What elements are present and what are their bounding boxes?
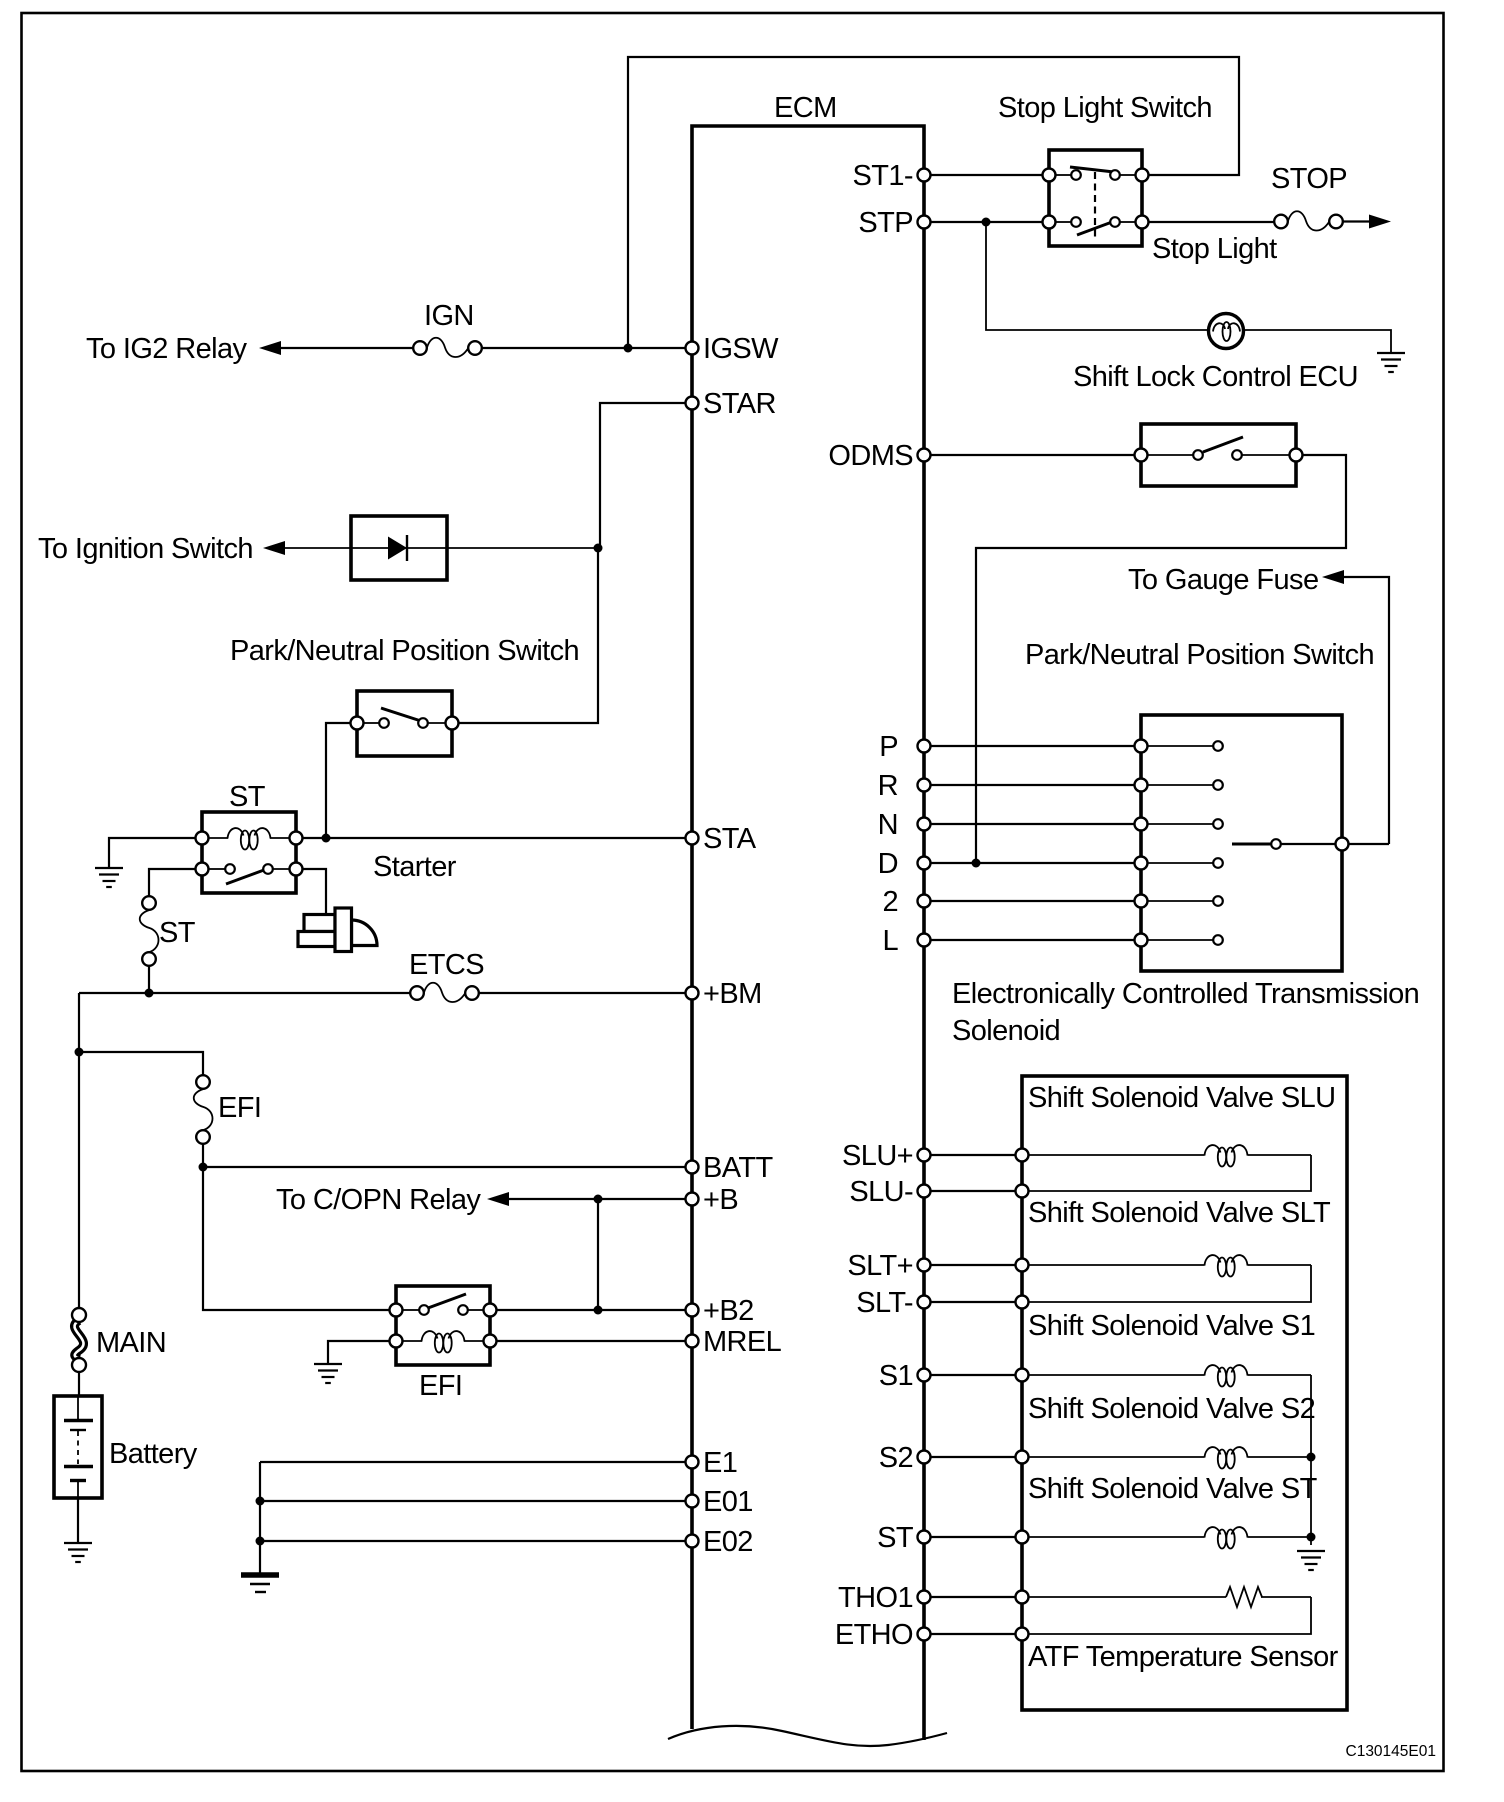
relay ST box [196, 812, 303, 893]
svg-text:E01: E01 [703, 1486, 753, 1518]
pin P [879, 731, 930, 763]
svg-text:SLU-: SLU- [849, 1176, 913, 1208]
fuse EFI [194, 1075, 213, 1144]
svg-text:SLT-: SLT- [856, 1287, 913, 1319]
wire +B pin [508, 1198, 692, 1200]
svg-text:To Gauge Fuse: To Gauge Fuse [1128, 564, 1319, 596]
battery B1 [54, 1396, 102, 1498]
svg-text:IGSW: IGSW [703, 333, 779, 365]
svg-text:Park/Neutral Position Switch: Park/Neutral Position Switch [230, 635, 579, 667]
wire SLU- pin [924, 1190, 1022, 1192]
PN contact N [1135, 818, 1148, 831]
ground ECM E02 [241, 1575, 279, 1592]
PN contact L lead [1141, 939, 1213, 941]
solenoid coil SLT [1022, 1255, 1311, 1276]
wire BATT pin [203, 1166, 692, 1168]
wire battery to ground [77, 1498, 79, 1542]
wire PN switch to STA node [326, 723, 357, 838]
pin SLU- [849, 1176, 930, 1208]
wire EFI relay coil to ground [328, 1341, 396, 1363]
svg-text:ETCS: ETCS [409, 949, 484, 981]
wire STP to STOP fuse [1142, 221, 1274, 223]
starter motor M [298, 908, 377, 952]
pin N [878, 809, 931, 841]
wire node down to Park/Neutral Position Switch [452, 548, 598, 723]
svg-text:SLT+: SLT+ [847, 1250, 913, 1282]
svg-text:+B: +B [703, 1184, 738, 1216]
svg-text:IGN: IGN [424, 300, 474, 332]
svg-text:N: N [878, 809, 898, 841]
solenoid coil S1 [1022, 1365, 1311, 1386]
svg-text:ST: ST [877, 1522, 914, 1554]
wire EFI relay coil to MREL pin [490, 1340, 692, 1342]
wire THO1 pin [924, 1596, 1022, 1598]
wire SLT return [1022, 1265, 1311, 1302]
pin E1 [686, 1447, 738, 1479]
ECM box [692, 126, 924, 1740]
pin STA [686, 823, 757, 855]
svg-text:S2: S2 [879, 1442, 913, 1474]
wire 2 pin to PN switch [924, 900, 1141, 902]
PN contact R [1135, 779, 1148, 792]
svg-text:S1: S1 [879, 1360, 913, 1392]
PN switch common wiper [1232, 838, 1389, 851]
pin STAR [686, 388, 776, 420]
junction STP node [982, 218, 991, 227]
svg-text:Stop Light Switch: Stop Light Switch [998, 92, 1212, 124]
wire ATF sensor return [1022, 1597, 1311, 1634]
svg-text:Solenoid: Solenoid [952, 1015, 1060, 1047]
solenoid coil S2 [1022, 1447, 1311, 1468]
wire EFI fuse to BATT line [202, 1144, 204, 1167]
wire S2 pin [924, 1456, 1022, 1458]
svg-text:Shift Lock Control ECU: Shift Lock Control ECU [1073, 361, 1358, 393]
PN contact D lead [1141, 862, 1213, 864]
wire Stop Light Switch to top rail [628, 57, 1239, 348]
pin E02 [686, 1526, 753, 1558]
pin SLU+ [842, 1140, 930, 1172]
contact S2 [1016, 1451, 1029, 1464]
svg-text:D: D [878, 848, 898, 880]
wire ODMS pin to switch [924, 454, 1141, 456]
contact SLT- [1016, 1296, 1029, 1309]
PN contact L [1135, 934, 1148, 947]
pin R [878, 770, 931, 802]
svg-text:ETHO: ETHO [835, 1619, 913, 1651]
ground battery [64, 1543, 92, 1562]
wire fuse to STOP arrow [1343, 220, 1370, 222]
PN contact 2 [1135, 895, 1148, 908]
wire ODMS switch down to D node [976, 455, 1346, 863]
pin ETHO [835, 1619, 931, 1651]
contact SLU+ [1016, 1149, 1029, 1162]
wire SLT- pin [924, 1301, 1022, 1303]
pin ODMS [828, 440, 930, 472]
pin ST [877, 1522, 930, 1554]
contact S1 [1016, 1369, 1029, 1382]
contact ST [1016, 1531, 1029, 1544]
pin STP [858, 207, 930, 239]
contact SLT+ [1016, 1259, 1029, 1272]
svg-text:R: R [878, 770, 898, 802]
svg-text:EFI: EFI [419, 1370, 462, 1402]
junction +B node [594, 1195, 603, 1204]
wire EFI relay to +B2 pin [490, 1309, 692, 1311]
svg-text:STAR: STAR [703, 388, 776, 420]
svg-text:STP: STP [858, 207, 913, 239]
wire R pin to PN switch [924, 784, 1141, 786]
wire ST1- pin to Stop Light Switch [924, 174, 1049, 176]
PN contact R lead [1141, 784, 1213, 786]
wire +BM rail [79, 992, 410, 994]
svg-text:2: 2 [882, 886, 898, 918]
arrow to IG2 Relay [259, 341, 281, 355]
solenoid coil ST [1022, 1527, 1311, 1548]
pin IGSW [686, 333, 780, 365]
svg-text:Starter: Starter [373, 851, 457, 883]
wire SLT+ pin [924, 1264, 1022, 1266]
pin THO1 [838, 1582, 930, 1614]
svg-text:MAIN: MAIN [96, 1327, 166, 1359]
PN contact P [1135, 740, 1148, 753]
fusible link MAIN [72, 1308, 86, 1372]
wire gauge fuse to PN switch common [1343, 577, 1389, 844]
resistor ATF temperature sensor [1022, 1587, 1311, 1607]
svg-text:E1: E1 [703, 1447, 737, 1479]
diode D1 box [351, 516, 447, 580]
svg-text:P: P [879, 731, 898, 763]
svg-text:To C/OPN Relay: To C/OPN Relay [276, 1184, 481, 1216]
PN contact 2 lead [1141, 900, 1213, 902]
svg-text:L: L [882, 925, 898, 957]
wire STP pin to Stop Light Switch [924, 221, 1049, 223]
junction E01 node [256, 1497, 265, 1506]
wire branch to EFI fuse [79, 1052, 203, 1075]
wire IGN fuse to IGSW pin [482, 347, 692, 349]
pin SLT- [856, 1287, 930, 1319]
svg-text:ST: ST [229, 781, 266, 813]
wire battery rail down [78, 993, 80, 1308]
PN contact N lead [1141, 823, 1213, 825]
svg-text:ATF Temperature Sensor: ATF Temperature Sensor [1028, 1641, 1339, 1673]
wire ST relay to STA pin [296, 837, 692, 839]
wire ST relay to starter [296, 869, 326, 914]
Stop Light Switch S1 [1043, 150, 1149, 246]
contact THO1 [1016, 1591, 1029, 1604]
wire diode line [284, 547, 598, 549]
svg-text:Shift Solenoid Valve ST: Shift Solenoid Valve ST [1028, 1473, 1318, 1505]
svg-text:STA: STA [703, 823, 757, 855]
svg-text:E02: E02 [703, 1526, 753, 1558]
wire E1 pin [260, 1461, 692, 1463]
wire MAIN to battery [78, 1372, 80, 1396]
arrow to Ignition Switch [263, 541, 285, 555]
wire S1 pin [924, 1374, 1022, 1376]
svg-text:ECM: ECM [774, 92, 837, 124]
svg-text:+B2: +B2 [703, 1295, 754, 1327]
svg-text:+BM: +BM [703, 978, 762, 1010]
ECT solenoid assembly box [1022, 1076, 1347, 1710]
svg-text:To IG2 Relay: To IG2 Relay [86, 333, 248, 365]
wire D pin to PN switch [924, 862, 1141, 864]
svg-text:C130145E01: C130145E01 [1346, 1743, 1437, 1760]
wire L pin to PN switch [924, 939, 1141, 941]
wire E01 pin [260, 1500, 692, 1502]
wire ST relay coil to ground [109, 838, 202, 867]
svg-text:ST: ST [159, 917, 196, 949]
pin SLT+ [847, 1250, 930, 1282]
PN contact P lead [1141, 745, 1213, 747]
PN contact D [1135, 857, 1148, 870]
svg-text:Shift Solenoid Valve SLT: Shift Solenoid Valve SLT [1028, 1197, 1331, 1229]
ground ST relay coil [95, 868, 123, 887]
junction ST ground rail [1307, 1533, 1316, 1542]
wire BATT node down to EFI relay [203, 1167, 396, 1310]
wire E ground bus [259, 1462, 261, 1573]
junction +BM node [145, 989, 154, 998]
junction E02 node [256, 1537, 265, 1546]
pin S2 [879, 1442, 931, 1474]
pin D [878, 848, 931, 880]
svg-text:EFI: EFI [218, 1092, 261, 1124]
contact SLU- [1016, 1185, 1029, 1198]
wire lamp to ground [1244, 330, 1392, 352]
junction STAR/diode node [594, 544, 603, 553]
wire ETHO pin [924, 1633, 1022, 1635]
fuse STOP [1274, 211, 1343, 230]
svg-text:Shift Solenoid Valve S2: Shift Solenoid Valve S2 [1028, 1393, 1315, 1425]
pin +B2 [686, 1295, 754, 1327]
relay EFI box [390, 1286, 497, 1365]
junction STA node [322, 834, 331, 843]
wire solenoid ground rail [1310, 1375, 1312, 1545]
svg-text:Park/Neutral Position Switch: Park/Neutral Position Switch [1025, 639, 1374, 671]
wire ST fuse to +BM line [148, 966, 150, 993]
pin MREL [686, 1326, 782, 1358]
junction S2 ground rail [1307, 1453, 1316, 1462]
Park/Neutral Position Switch (start) box [351, 691, 459, 756]
wire ST relay contact to ST fuse [149, 869, 202, 896]
svg-text:ODMS: ODMS [828, 440, 913, 472]
wire P pin to PN switch [924, 745, 1141, 747]
pin BATT [686, 1152, 774, 1184]
solenoid coil SLU [1022, 1145, 1311, 1166]
ground shift lock [1377, 353, 1405, 372]
svg-text:Shift Solenoid Valve S1: Shift Solenoid Valve S1 [1028, 1310, 1315, 1342]
pin L [882, 925, 930, 957]
pin S1 [879, 1360, 931, 1392]
arrow to Gauge Fuse [1322, 570, 1344, 584]
ECM bottom break wave [668, 1726, 947, 1746]
wire To IG2 Relay to IGN fuse [280, 347, 413, 349]
fuse ST [140, 896, 159, 966]
diode D1 [388, 535, 407, 561]
arrow to C/OPN Relay [487, 1192, 509, 1206]
svg-text:Electronically Controlled Tran: Electronically Controlled Transmission [952, 978, 1419, 1010]
wire +B node to +B2 line [597, 1199, 599, 1310]
ground EFI relay [314, 1364, 342, 1383]
wire ST pin [924, 1536, 1022, 1538]
wire N pin to PN switch [924, 823, 1141, 825]
junction BATT node [199, 1163, 208, 1172]
wire STP branch to Shift Lock Control ECU [986, 222, 1208, 330]
arrow to STOP circuit [1369, 215, 1391, 229]
svg-text:MREL: MREL [703, 1326, 782, 1358]
junction IGSW node [624, 344, 633, 353]
wire SLU+ pin [924, 1154, 1022, 1156]
fuse ETCS [410, 983, 479, 1002]
pin E01 [686, 1486, 753, 1518]
pin ST1- [853, 160, 931, 192]
wire ETCS fuse to +BM pin [479, 992, 692, 994]
svg-text:Battery: Battery [109, 1438, 198, 1470]
junction +B2 node [594, 1306, 603, 1315]
fuse IGN [413, 338, 482, 357]
pin +B [686, 1184, 739, 1216]
svg-text:THO1: THO1 [838, 1582, 913, 1614]
svg-text:Stop Light: Stop Light [1152, 233, 1277, 265]
junction EFI branch node [75, 1048, 84, 1057]
svg-text:STOP: STOP [1271, 163, 1347, 195]
Park/Neutral Position Switch box [1141, 715, 1342, 971]
svg-text:BATT: BATT [703, 1152, 773, 1184]
junction D node [972, 859, 981, 868]
wire STAR pin down to diode node [600, 403, 692, 548]
wire SLU return [1022, 1155, 1311, 1191]
svg-text:ST1-: ST1- [853, 160, 913, 192]
svg-text:To Ignition Switch: To Ignition Switch [38, 533, 253, 565]
pin 2 [882, 886, 930, 918]
wire E02 pin [260, 1540, 692, 1542]
svg-text:Shift Solenoid Valve SLU: Shift Solenoid Valve SLU [1028, 1082, 1335, 1114]
svg-text:SLU+: SLU+ [842, 1140, 913, 1172]
contact ETHO [1016, 1628, 1029, 1641]
switch O/D main switch [1135, 424, 1303, 486]
ground solenoid rail [1297, 1551, 1325, 1570]
pin +BM [686, 978, 762, 1010]
lamp Shift Lock Control ECU [1209, 314, 1244, 349]
